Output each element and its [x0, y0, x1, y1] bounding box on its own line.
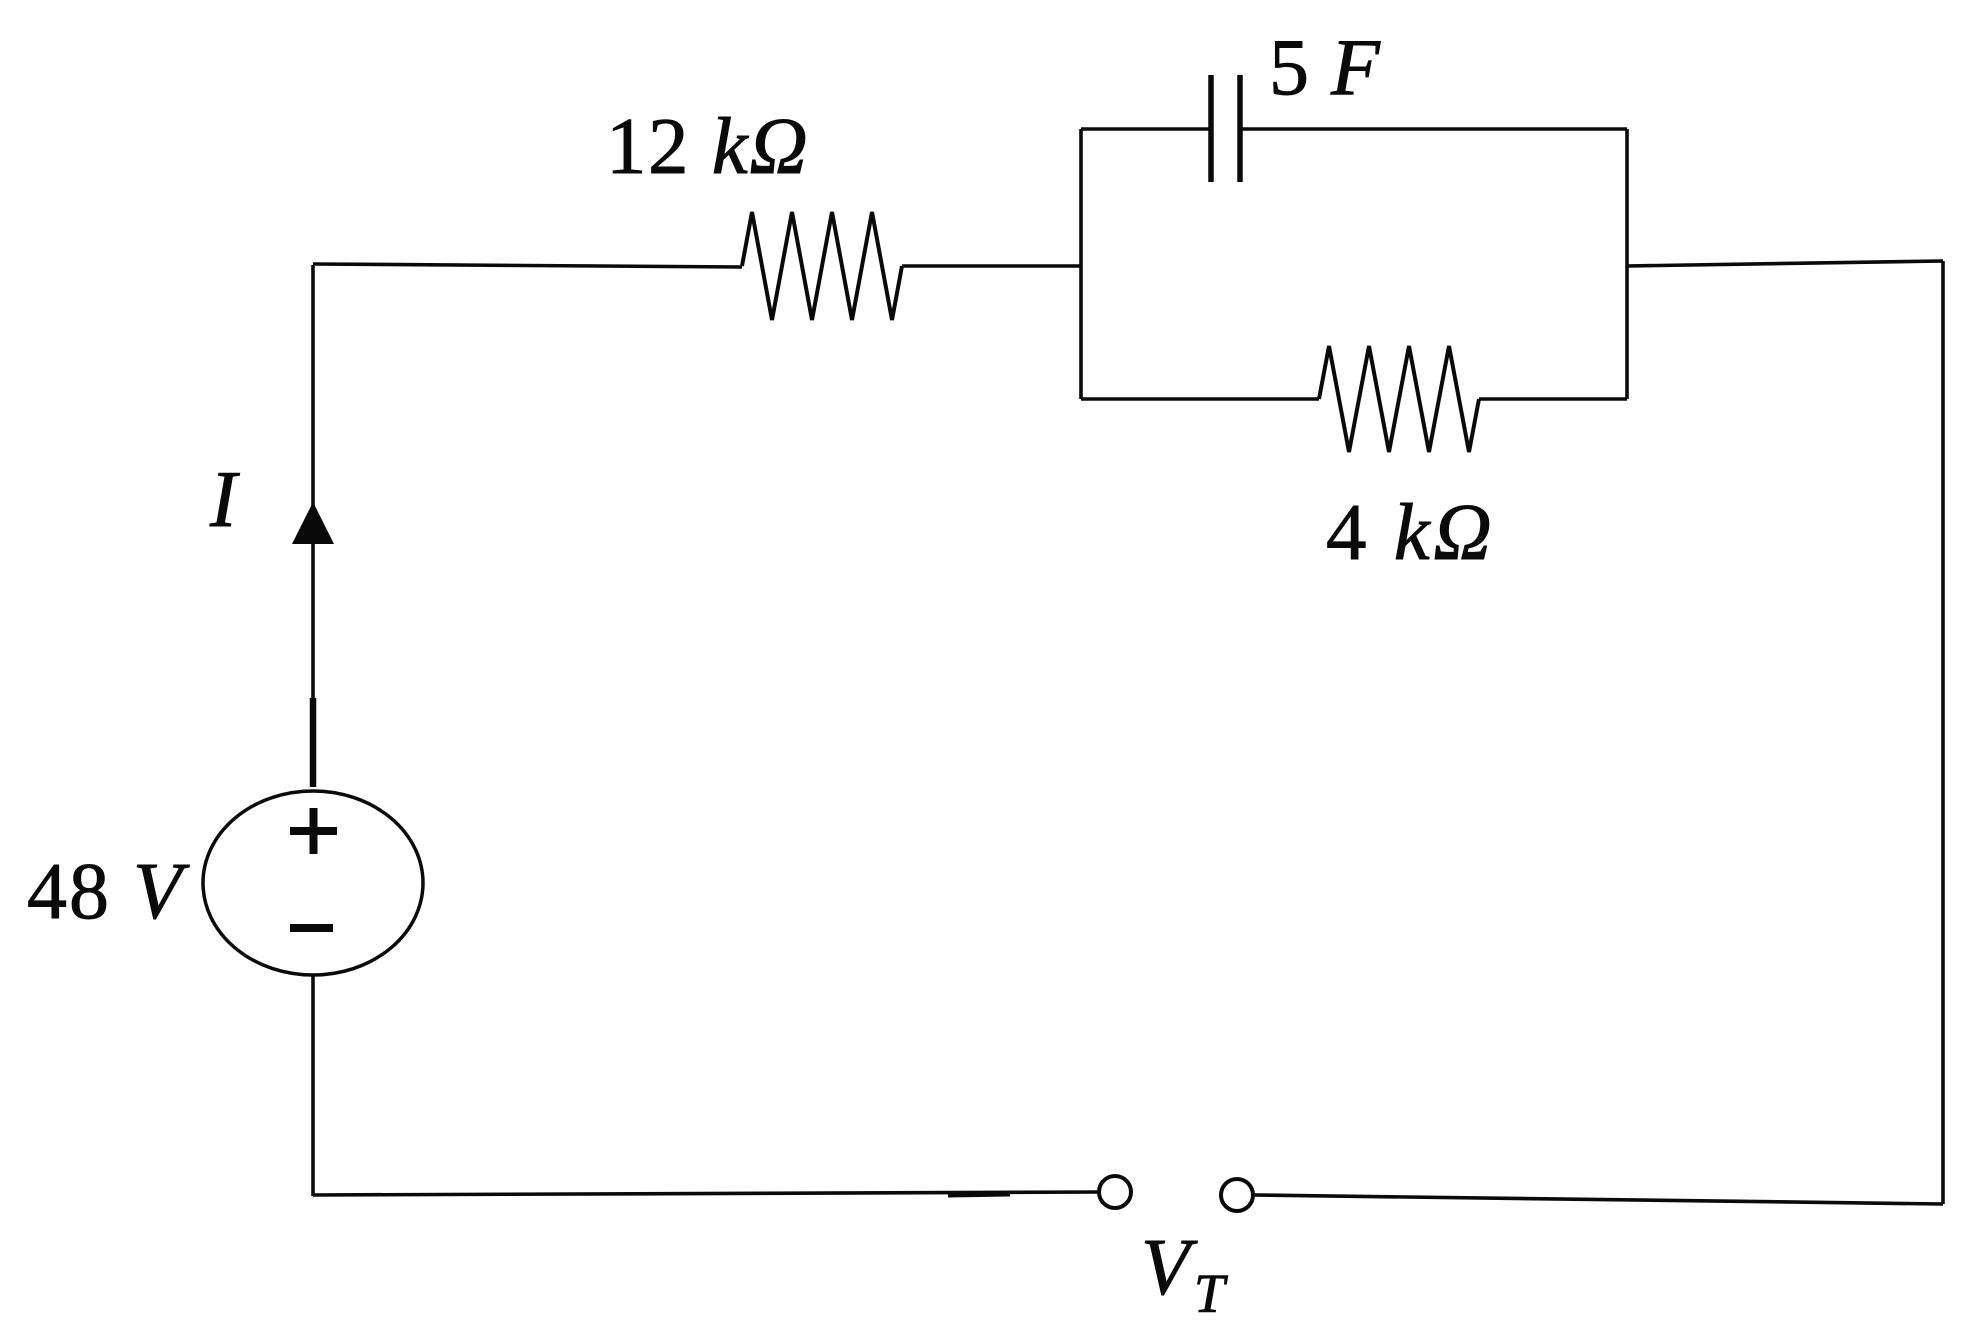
svg-text:12 kΩ: 12 kΩ	[606, 101, 809, 191]
svg-text:4 kΩ: 4 kΩ	[1326, 487, 1495, 577]
svg-text:T: T	[1194, 1263, 1228, 1324]
svg-text:5 F: 5 F	[1269, 24, 1381, 112]
svg-text:48 V: 48 V	[27, 848, 190, 936]
svg-text:I: I	[209, 456, 240, 544]
svg-text:V: V	[1141, 1224, 1198, 1312]
